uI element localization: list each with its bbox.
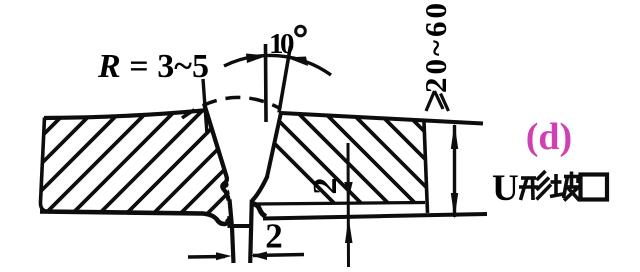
root face bottom arrowhead (up) (345, 217, 353, 243)
angle arc left arrowhead (246, 54, 268, 64)
left groove face (204, 105, 228, 201)
right groove radius curve (252, 176, 267, 201)
bottom edge long line (263, 214, 487, 219)
root gap right extension line (250, 200, 252, 264)
svg-text:R = 3~5: R = 3~5 (97, 48, 209, 85)
right plate hatching (221, 90, 567, 220)
root gap left arrowhead (216, 252, 232, 260)
svg-text:2: 2 (307, 178, 344, 195)
root gap dimension line right (253, 255, 304, 256)
root gap right arrowhead (251, 252, 267, 261)
root gap dimension line left (188, 255, 225, 259)
dashed radius arc (182, 97, 281, 118)
svg-text:U: U (492, 168, 519, 209)
caption hanzi Kou (mouth) (581, 175, 608, 200)
root face dimension line (347, 143, 351, 267)
left plate left edge (40, 118, 49, 212)
>= symbol drawn (426, 91, 449, 111)
right groove face (267, 113, 281, 178)
right plate right edge (424, 122, 428, 213)
groove angle right leg extension (279, 46, 291, 113)
right plate top edge with extension (281, 113, 483, 124)
angle dimension arc (224, 55, 331, 75)
root gap left extension line (230, 200, 234, 264)
left plate hatching (0, 70, 378, 230)
groove centerline vertical leg (264, 44, 268, 122)
left plate bottom edge (40, 212, 230, 224)
left plate top edge (44, 110, 206, 118)
svg-text:(d): (d) (526, 116, 572, 158)
right root bulge (252, 204, 266, 217)
root bottom connector line (228, 224, 253, 228)
caption hanzi Po (slope) (550, 172, 580, 201)
svg-text:20~60: 20~60 (418, 3, 453, 93)
thickness dimension line (453, 125, 456, 217)
R leader line (203, 79, 207, 134)
thickness bottom arrowhead (451, 193, 458, 219)
root face top arrowhead (down) (344, 182, 352, 199)
caption hanzi Xing (shape) (519, 171, 551, 200)
left groove face end arrow blob (221, 181, 228, 188)
svg-text:10: 10 (269, 28, 295, 60)
svg-text:2: 2 (265, 217, 283, 256)
angle arc right arrowhead (286, 57, 308, 67)
thickness top arrowhead (451, 123, 458, 149)
right plate root face line (254, 203, 425, 205)
